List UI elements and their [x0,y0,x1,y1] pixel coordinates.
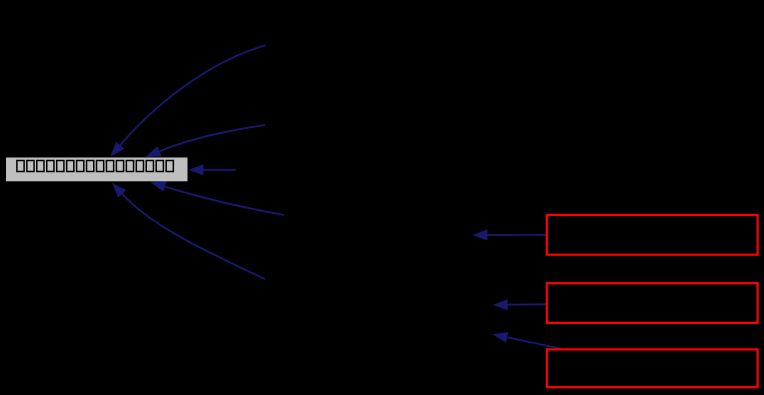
wire edge 3: horizontal arrow into right side of main node [189,164,236,175]
wire edge 5: long curve from hidden node (265,279) into bottom-left of main node [112,183,265,279]
main node label: 16 missing-glyph (tofu) boxes [17,161,173,172]
wire edge 2: curve from hidden node (265,125) into top of main node [146,125,266,157]
red box R3 [547,349,758,387]
wire edge 1: long curve from hidden node (265,45) into top-left of main node [111,45,266,156]
red box R2 [547,283,758,323]
wire edge 8: slanted arrow from red box R3 to hidden node [493,332,561,349]
wire edge 4: curve from hidden node (284,215) into bottom of main node [151,181,285,215]
red box R1 [547,215,758,255]
wire edge 6: horizontal arrow from red box R1 to hidden node [473,230,547,241]
wire edge 7: horizontal arrow from red box R2 to hidden node [493,299,546,310]
main node: grey filled box [6,158,188,182]
